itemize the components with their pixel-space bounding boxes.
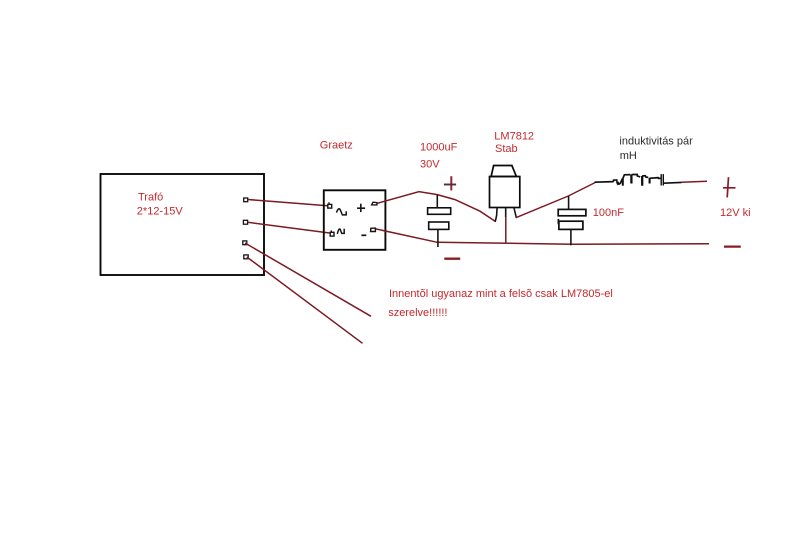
capacitor C1 bottom plate [429, 222, 449, 229]
capacitor C2 bottom lead [570, 230, 572, 246]
capacitor C2 bottom plate [558, 219, 583, 230]
wire transformer pin1 to bridge AC1 [248, 200, 328, 206]
inductor L1 scribbled coil [595, 174, 682, 186]
svg-text:Stab: Stab [495, 143, 518, 155]
regulator U1 body [490, 177, 520, 208]
regulator U1 LM7812 tab (trapezoid) [491, 166, 516, 177]
wire regulator ground leg to ground rail [505, 217, 507, 244]
transformer T1 box [101, 174, 265, 275]
transformer terminal pin 3 [243, 241, 247, 245]
capacitor C2 top plate [558, 209, 586, 215]
label LM7812 Stab [494, 130, 534, 155]
bridge AC2 terminal [330, 230, 334, 236]
wire C1 top node down to regulator input pin [437, 195, 495, 222]
svg-text:12V ki: 12V ki [720, 207, 751, 219]
label Trafó 2*12-15V [137, 192, 184, 218]
regulator U1 ground leg (black part) [505, 208, 507, 218]
wire regulator output to inductor node [516, 182, 597, 218]
bridge AC wave symbol top [337, 209, 347, 215]
wire bridge DC+ to capacitor C1 top node [377, 192, 437, 204]
minus marker below C1 [444, 258, 460, 260]
capacitor C1 bottom lead [437, 230, 439, 247]
svg-text:30V: 30V [420, 159, 440, 171]
svg-text:Innentõl ugyanaz mint a felsõ: Innentõl ugyanaz mint a felsõ csak LM780… [389, 288, 613, 300]
bridge AC1 terminal [328, 202, 332, 208]
svg-text:szerelve!!!!!!: szerelve!!!!!! [388, 307, 447, 319]
regulator U1 output leg [514, 208, 517, 219]
wire ground rail [437, 242, 709, 244]
label induktivitás pár mH [619, 136, 693, 162]
transformer terminal pin 4 [244, 255, 248, 259]
bridge AC wave symbol bottom [337, 229, 344, 234]
svg-text:2*12-15V: 2*12-15V [137, 205, 184, 217]
label 1000uF 30V [420, 141, 458, 170]
svg-text:LM7812: LM7812 [494, 130, 534, 142]
svg-text:1000uF: 1000uF [420, 141, 458, 153]
capacitor C2 100nF top lead [568, 196, 570, 209]
transformer terminal pin 1 [244, 198, 248, 202]
wire transformer pin2 to bridge AC2 [248, 222, 330, 233]
bridge minus symbol [361, 234, 366, 236]
svg-text:100nF: 100nF [593, 207, 624, 219]
note text: Innentõl ugyanaz mint a felsõ csak LM7805-el szerelve!!!!!! [388, 288, 613, 319]
wire transformer pin3 stub (to lower circuit) [245, 243, 371, 316]
transformer terminal pin 2 [243, 220, 247, 224]
bridge DC- terminal [371, 228, 376, 231]
svg-text:Graetz: Graetz [320, 139, 353, 151]
wire inductor to output + [682, 181, 708, 182]
wire bridge DC- to ground node [376, 229, 438, 242]
bridge plus symbol [357, 204, 365, 212]
capacitor C1 1000uF top lead [436, 195, 438, 208]
plus marker at C1 top [444, 176, 456, 190]
output plus marker [723, 177, 736, 197]
svg-text:mH: mH [620, 150, 637, 162]
bridge DC+ terminal [372, 202, 377, 205]
svg-text:Trafó: Trafó [138, 192, 163, 204]
svg-text:induktivitás pár: induktivitás pár [619, 136, 693, 148]
wire transformer pin4 stub (to lower circuit) [247, 257, 363, 343]
regulator U1 input leg [495, 208, 497, 222]
output minus marker [724, 246, 741, 248]
capacitor C1 top plate [428, 208, 451, 215]
Graetz bridge rectifier box [324, 190, 386, 250]
